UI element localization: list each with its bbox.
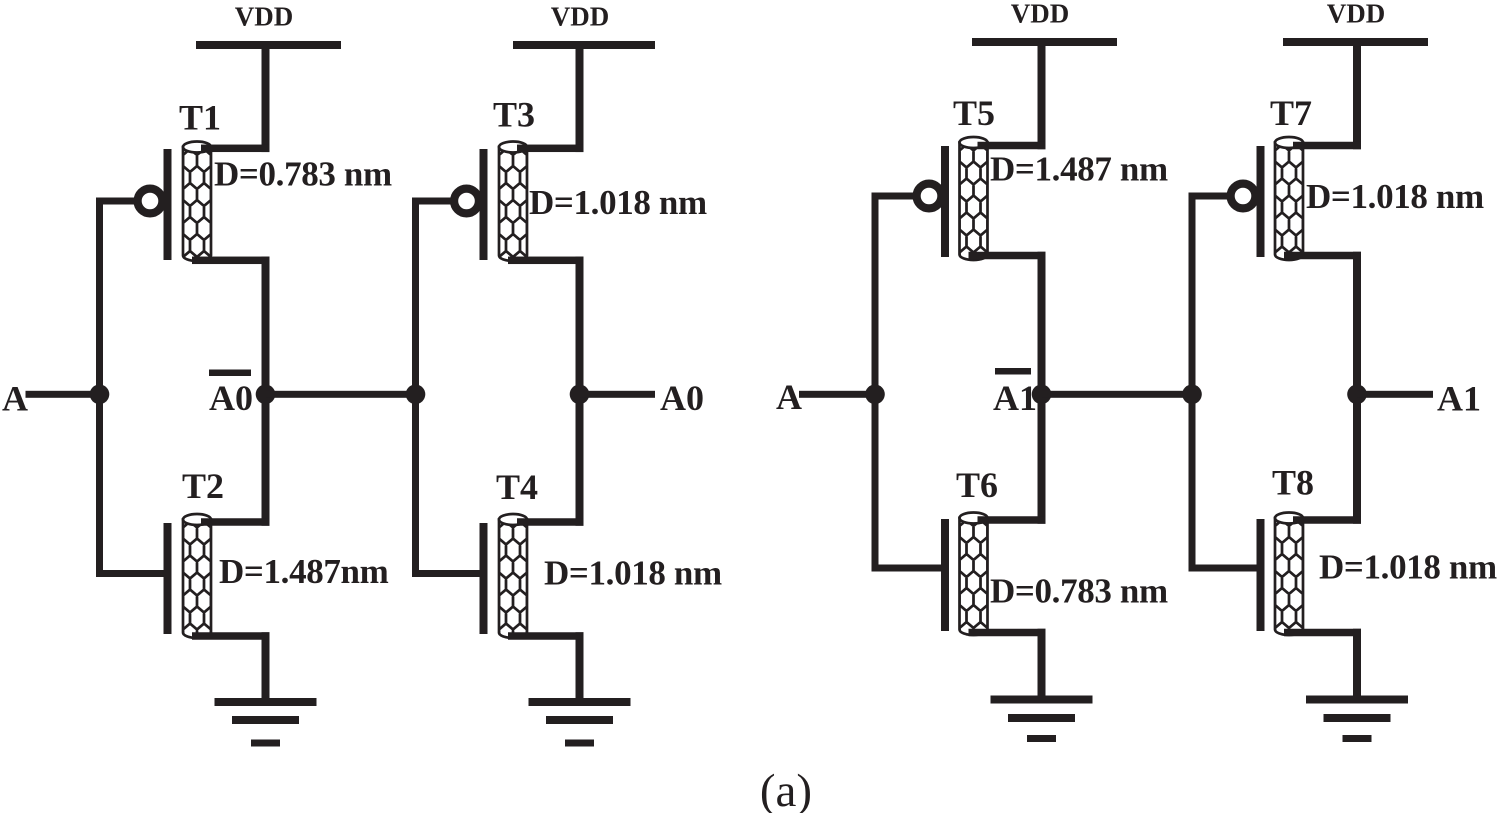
wire output line T3 source to T4 drain — [576, 257, 584, 526]
wire VDD rail down to T7 drain — [1353, 42, 1361, 149]
svg-text:A0: A0 — [209, 378, 253, 418]
transistor T8 n-type CNTFET: gate bar — [1257, 519, 1265, 631]
svg-text:A: A — [2, 379, 28, 419]
ground symbol under T2 — [215, 698, 317, 706]
transistor T3 carbon nanotube channel — [499, 147, 527, 261]
transistor T3 gate bar — [480, 149, 488, 260]
transistor T7 gate bar — [1257, 146, 1265, 257]
wire T3 drain — [517, 145, 584, 153]
wire T1 source to output node — [192, 257, 270, 265]
transistor T1 p-type CNTFET: gate bubble — [138, 189, 163, 214]
svg-text:A: A — [776, 377, 802, 417]
wire T8 source down to ground — [1353, 629, 1361, 700]
wire T3 gate — [412, 198, 451, 205]
wire T5 source to output node — [969, 252, 1046, 260]
svg-text:A1: A1 — [993, 378, 1037, 418]
wire T2 source down to ground — [262, 632, 270, 702]
wire output to label A0 — [580, 391, 656, 398]
ground symbol under T4 — [529, 698, 631, 706]
svg-text:T2: T2 — [182, 466, 224, 506]
svg-text:VDD: VDD — [1011, 0, 1070, 29]
wire T8 source — [1284, 629, 1361, 637]
wire output line T1 source to T2 drain — [262, 257, 270, 526]
transistor T6 n-type CNTFET: gate bar — [941, 519, 949, 631]
wire VDD rail down to T3 drain — [576, 45, 584, 152]
svg-text:D=1.487nm: D=1.487nm — [219, 552, 389, 591]
wire T6 source down to ground — [1038, 629, 1046, 700]
wire input A to T5/T6 gate bus — [799, 391, 875, 398]
svg-text:D=1.018 nm: D=1.018 nm — [529, 183, 707, 222]
svg-text:T5: T5 — [953, 93, 995, 133]
wire T5 drain — [978, 142, 1046, 150]
svg-text:T8: T8 — [1272, 463, 1314, 503]
wire T7 gate — [1189, 193, 1228, 200]
wire T4 source down to ground — [576, 632, 584, 702]
svg-text:D=1.487 nm: D=1.487 nm — [990, 150, 1168, 189]
wire gate bus of T5/T6 — [872, 193, 879, 572]
wire T6 drain — [978, 516, 1046, 524]
transistor T2 n-type CNTFET: gate bar — [164, 523, 172, 634]
svg-text:A1: A1 — [1437, 379, 1481, 419]
transistor T4 n-type CNTFET: gate bar — [480, 523, 488, 634]
wire T7 drain — [1293, 142, 1361, 150]
wire gate bus of T3/T4 — [412, 198, 419, 578]
transistor T4 carbon nanotube channel — [499, 520, 527, 639]
node junction A on T5/T6 gate bus — [865, 385, 885, 405]
node junction on T3/T4 gate bus — [406, 385, 426, 405]
transistor T5 p-type CNTFET: gate bubble — [917, 184, 942, 209]
wire output line T7 source to T8 drain — [1353, 252, 1361, 524]
svg-text:VDD: VDD — [1327, 0, 1386, 29]
wire T8 drain — [1293, 516, 1361, 524]
node A0bar overbar — [209, 370, 251, 377]
ground symbol under T6 — [991, 696, 1093, 704]
wire T3 source to output node — [508, 257, 584, 265]
wire output line T5 source to T6 drain — [1038, 252, 1046, 524]
svg-text:T3: T3 — [493, 95, 535, 135]
wire T5 gate — [872, 193, 914, 200]
svg-text:VDD: VDD — [235, 2, 294, 32]
wire A0bar to T3/T4 gate bus — [266, 391, 416, 398]
VDD power rail (T3/T4 stage) — [513, 41, 655, 49]
svg-text:D=0.783 nm: D=0.783 nm — [990, 572, 1168, 611]
transistor T6 carbon nanotube channel — [960, 518, 988, 635]
svg-text:T7: T7 — [1270, 93, 1312, 133]
wire T4 gate — [412, 570, 481, 577]
wire VDD rail down to T5 drain — [1038, 42, 1046, 149]
wire input A to T1/T2 gate bus — [26, 391, 100, 398]
svg-text:D=1.018 nm: D=1.018 nm — [1319, 548, 1497, 587]
node junction A1bar on output of T5/T6 — [1032, 385, 1052, 405]
svg-text:D=1.018 nm: D=1.018 nm — [544, 554, 722, 593]
svg-text:D=1.018 nm: D=1.018 nm — [1306, 177, 1484, 216]
wire T1 gate — [96, 198, 135, 205]
transistor T5 gate bar — [941, 146, 949, 257]
transistor T1 carbon nanotube channel — [183, 147, 211, 261]
node junction A0 on output of T3/T4 — [570, 385, 590, 405]
wire T6 gate — [872, 565, 943, 572]
node junction A1 on output of T7/T8 — [1347, 385, 1367, 405]
transistor T2 carbon nanotube channel — [183, 520, 211, 639]
wire T4 drain — [517, 518, 584, 526]
transistor T7 carbon nanotube channel — [1275, 143, 1303, 261]
VDD power rail (T5/T6 stage) — [972, 38, 1117, 46]
transistor T1 gate bar — [164, 149, 172, 260]
node junction on T7/T8 gate bus — [1182, 385, 1202, 405]
node junction A on T1/T2 gate bus — [90, 385, 110, 405]
wire T2 gate — [96, 570, 165, 577]
wire T4 source — [508, 632, 584, 640]
ground symbol under T8 — [1306, 696, 1408, 704]
wire gate bus of T7/T8 — [1189, 193, 1196, 572]
transistor T7 p-type CNTFET: gate bubble — [1231, 184, 1256, 209]
wire T1 drain — [201, 145, 270, 153]
svg-text:T1: T1 — [179, 98, 221, 138]
node junction A0bar on output of T1/T2 — [256, 385, 276, 405]
svg-text:A0: A0 — [660, 378, 704, 418]
transistor T3 p-type CNTFET: gate bubble — [454, 189, 479, 214]
svg-text:T6: T6 — [956, 465, 998, 505]
svg-text:D=0.783 nm: D=0.783 nm — [214, 155, 392, 194]
transistor T5 carbon nanotube channel — [960, 143, 988, 261]
wire A1bar to T7/T8 gate bus — [1042, 391, 1193, 398]
wire T2 source — [192, 632, 270, 640]
wire T6 source — [969, 629, 1046, 637]
wire T7 source to output node — [1284, 252, 1361, 260]
wire gate bus of T1/T2 — [96, 198, 103, 578]
transistor T8 carbon nanotube channel — [1275, 518, 1303, 635]
wire T2 drain — [201, 518, 270, 526]
VDD power rail (T7/T8 stage) — [1283, 38, 1428, 46]
svg-text:(a): (a) — [760, 765, 812, 813]
svg-text:VDD: VDD — [551, 2, 610, 32]
wire T8 gate — [1189, 565, 1258, 572]
svg-text:T4: T4 — [496, 467, 538, 507]
wire output to label A1 — [1357, 391, 1433, 398]
node A1bar overbar — [995, 368, 1031, 375]
wire VDD rail down to T1 drain — [262, 45, 270, 152]
VDD power rail (T1/T2 stage) — [196, 41, 341, 49]
